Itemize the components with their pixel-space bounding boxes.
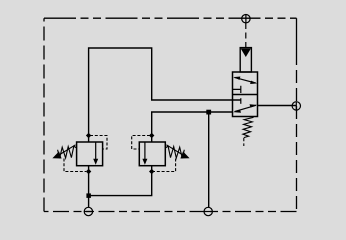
- main valve body: [233, 72, 258, 117]
- relief valve 2 drain dashed line: [154, 159, 176, 172]
- pilot dashed line from top port to main valve actuator: [245, 23, 247, 47]
- main valve top position blocked port: [233, 86, 241, 93]
- node: relief valve 2 drain tap: [149, 169, 154, 174]
- relief valve 2 spring: [165, 146, 184, 158]
- enclosure dashed border: [44, 18, 297, 211]
- main valve position divider: [233, 94, 258, 96]
- wire: right relief valve top up, across to main valve A port: [152, 112, 233, 142]
- main valve pilot triangle: [241, 48, 251, 57]
- port circle bottom-left: [84, 207, 92, 215]
- relief valve 1 flow path arrow: [93, 143, 98, 165]
- main valve bottom position blocked port (cap of P line): [240, 98, 242, 104]
- port circle right: [292, 102, 300, 110]
- relief valve 1 pilot dashed line: [90, 136, 107, 150]
- main valve return spring: [243, 117, 254, 137]
- relief valve 1 spring: [58, 146, 77, 158]
- wire: main valve B port to right port circle: [258, 105, 297, 107]
- main valve pilot actuator box: [240, 48, 251, 72]
- port circle top: [242, 15, 250, 24]
- relief valve 2 pilot dashed line: [132, 136, 150, 150]
- node: junction on A wire: [206, 110, 211, 115]
- port circle bottom-middle: [204, 207, 212, 215]
- node: relief valve 1 pilot tap: [86, 133, 91, 138]
- relief valve 2 flow path arrow: [142, 143, 147, 165]
- main valve bottom position flow path (double arrow): [233, 104, 257, 113]
- relief valve 1 drain dashed line: [64, 159, 86, 172]
- node: junction bottom-left: [86, 193, 91, 198]
- node: relief valve 1 drain tap: [86, 169, 91, 174]
- wire: left relief valve bottom down to bottom-left port: [88, 166, 90, 208]
- wire: left relief valve top up, across, down to main valve P port: [89, 48, 241, 142]
- relief valve 2 spring adjust arrow: [166, 145, 189, 159]
- node: relief valve 2 pilot tap: [149, 133, 154, 138]
- relief valve 2 (right) body: [139, 142, 165, 166]
- main valve top position flow path (double arrow): [233, 77, 257, 85]
- main valve spring drain dash: [243, 138, 245, 146]
- relief valve 1 spring adjust arrow: [52, 145, 75, 159]
- relief valve 1 (left) body: [77, 142, 103, 166]
- wire: right relief valve bottom down and across to junction: [89, 166, 152, 196]
- wire: junction down to bottom-middle port: [208, 112, 210, 208]
